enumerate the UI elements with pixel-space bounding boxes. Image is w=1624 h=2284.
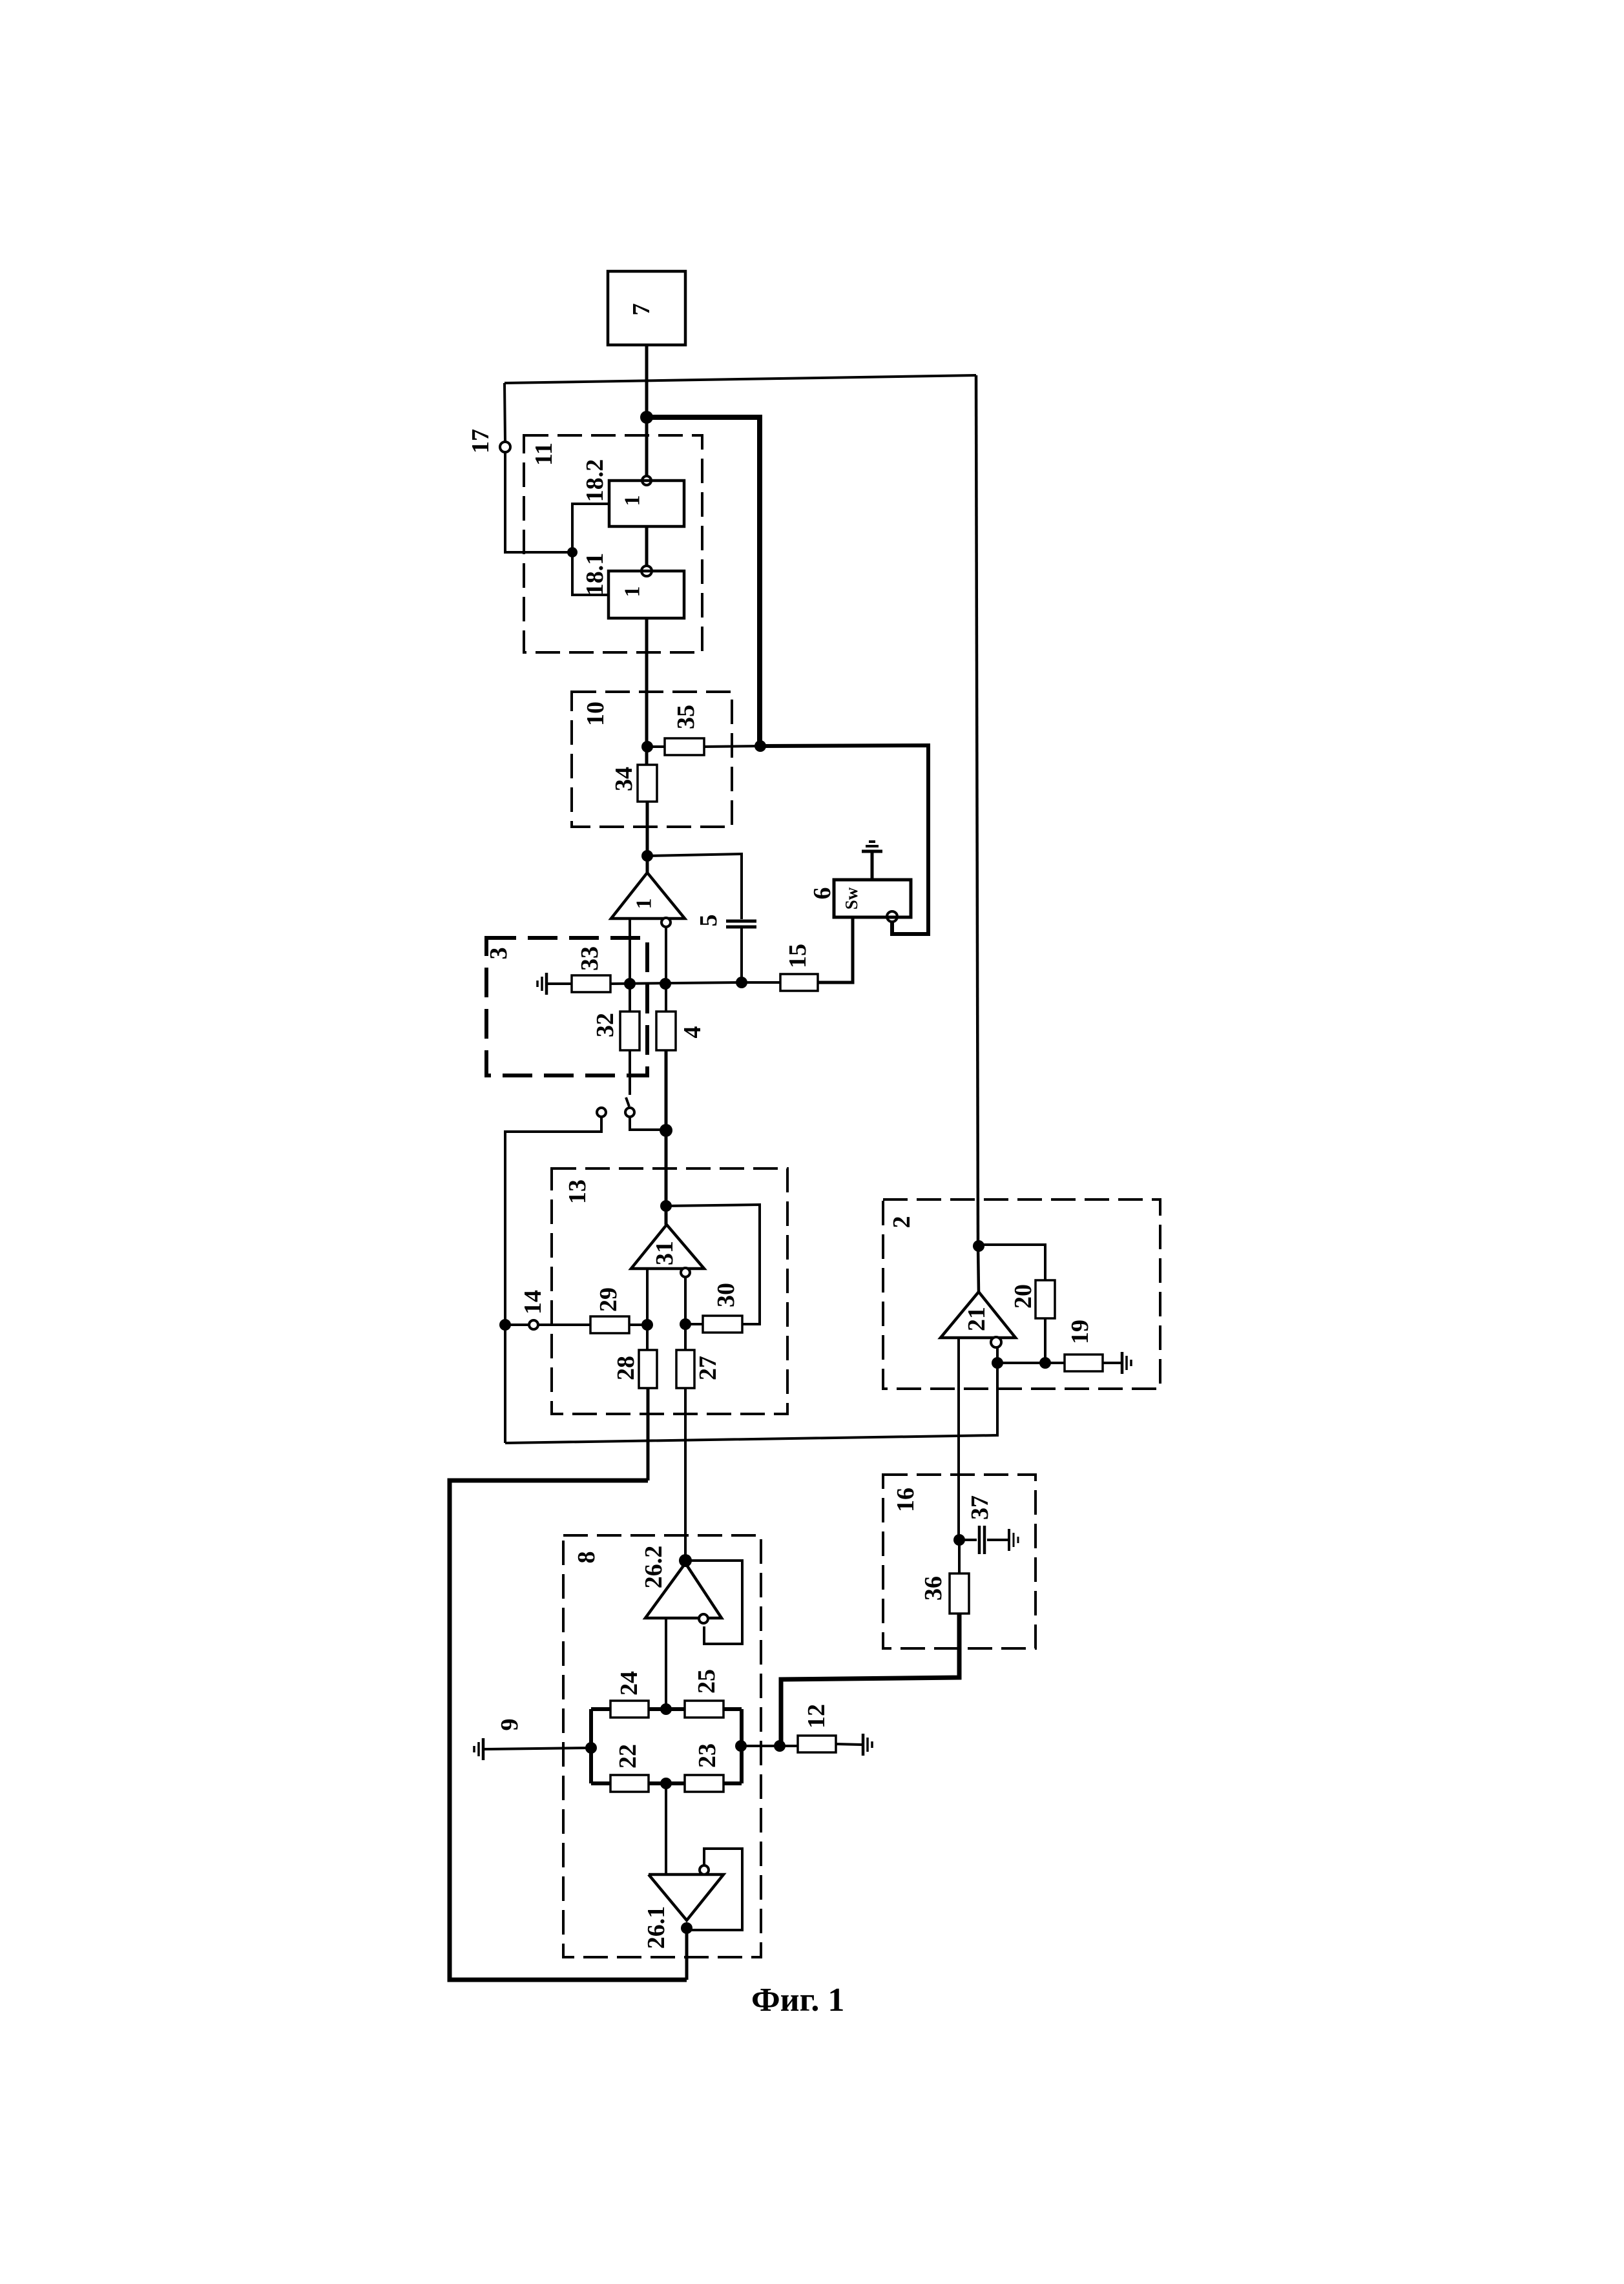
svg-text:22: 22 xyxy=(614,1744,641,1769)
svg-text:26.2: 26.2 xyxy=(640,1546,667,1589)
svg-text:24: 24 xyxy=(616,1671,643,1696)
svg-text:13: 13 xyxy=(564,1179,591,1204)
svg-text:18.2: 18.2 xyxy=(581,459,609,503)
svg-text:11: 11 xyxy=(530,442,557,466)
svg-text:36: 36 xyxy=(920,1576,947,1601)
svg-text:34: 34 xyxy=(610,767,638,791)
svg-text:35: 35 xyxy=(672,705,700,729)
svg-text:29: 29 xyxy=(595,1287,622,1312)
svg-text:Фиг. 1: Фиг. 1 xyxy=(751,1982,844,2019)
svg-text:9: 9 xyxy=(496,1719,523,1731)
svg-text:20: 20 xyxy=(1010,1284,1037,1309)
svg-text:32: 32 xyxy=(592,1013,619,1037)
svg-text:31: 31 xyxy=(651,1241,678,1265)
svg-text:Sw: Sw xyxy=(842,887,861,909)
svg-text:25: 25 xyxy=(693,1669,720,1694)
svg-text:16: 16 xyxy=(892,1488,919,1512)
svg-text:5: 5 xyxy=(695,915,722,927)
svg-text:1: 1 xyxy=(621,495,645,506)
svg-text:33: 33 xyxy=(576,946,603,971)
svg-text:8: 8 xyxy=(573,1552,600,1564)
svg-text:28: 28 xyxy=(612,1356,640,1380)
svg-text:12: 12 xyxy=(803,1704,830,1729)
svg-text:1: 1 xyxy=(621,587,645,597)
svg-text:2: 2 xyxy=(888,1216,915,1229)
svg-text:6: 6 xyxy=(809,888,836,900)
svg-text:37: 37 xyxy=(966,1495,994,1520)
svg-text:10: 10 xyxy=(582,701,609,726)
svg-text:17: 17 xyxy=(467,429,494,453)
svg-text:23: 23 xyxy=(694,1743,721,1768)
svg-text:1: 1 xyxy=(632,898,656,909)
svg-text:15: 15 xyxy=(784,944,811,968)
svg-text:4: 4 xyxy=(679,1026,706,1039)
svg-text:19: 19 xyxy=(1067,1320,1094,1344)
svg-text:7: 7 xyxy=(628,304,655,316)
svg-text:14: 14 xyxy=(519,1290,547,1314)
svg-text:3: 3 xyxy=(485,948,512,960)
svg-text:27: 27 xyxy=(694,1356,722,1380)
svg-text:18.1: 18.1 xyxy=(581,553,609,596)
svg-text:30: 30 xyxy=(713,1283,740,1307)
svg-text:21: 21 xyxy=(963,1307,990,1331)
svg-text:26.1: 26.1 xyxy=(643,1906,670,1949)
